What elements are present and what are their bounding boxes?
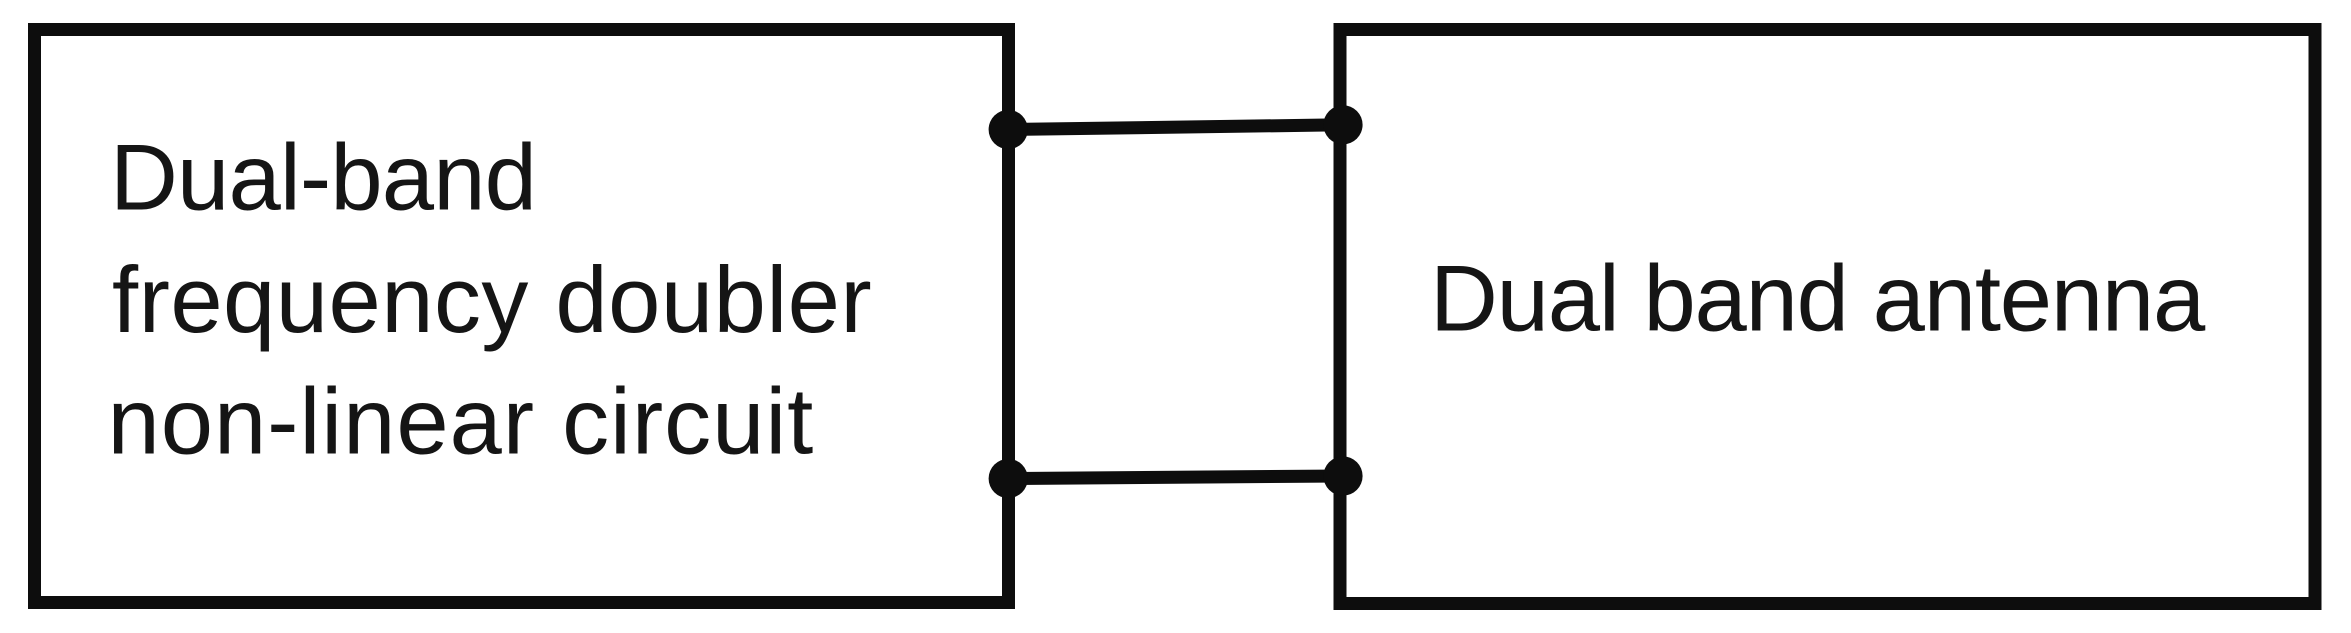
svg-text:Dual band antenna: Dual band antenna [1430, 246, 2206, 351]
block U1: dual-band frequency doubler non-linear circuit [35, 30, 1009, 603]
junction dot: top-left node [989, 110, 1028, 149]
svg-text:non-linear circuit: non-linear circuit [108, 369, 815, 474]
block AN1: dual band antenna [1340, 30, 2315, 604]
svg-text:frequency doubler: frequency doubler [112, 247, 872, 352]
svg-text:Dual-band: Dual-band [110, 125, 536, 230]
junction dot: bottom-right node [1323, 456, 1362, 495]
wire: top feed line [1009, 125, 1344, 130]
wire: bottom feed line [1009, 476, 1344, 479]
junction dot: bottom-left node [989, 459, 1028, 498]
junction dot: top-right node [1323, 105, 1362, 144]
